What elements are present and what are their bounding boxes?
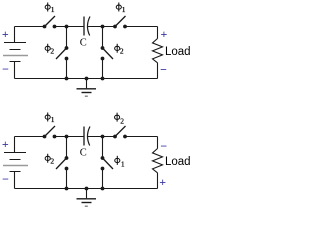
svg-text:+: + [160, 27, 167, 41]
svg-text:Load: Load [165, 46, 191, 58]
svg-text:−: − [160, 139, 167, 153]
svg-text:1: 1 [51, 5, 55, 14]
svg-text:2: 2 [120, 46, 124, 55]
svg-text:1: 1 [122, 5, 126, 14]
svg-text:+: + [2, 137, 9, 151]
svg-text:2: 2 [50, 46, 54, 55]
svg-text:−: − [160, 63, 167, 77]
svg-text:1: 1 [121, 159, 125, 168]
svg-text:+: + [2, 27, 9, 41]
svg-text:Load: Load [165, 156, 191, 168]
svg-text:C: C [80, 148, 87, 159]
svg-text:1: 1 [51, 115, 55, 124]
svg-text:2: 2 [120, 116, 124, 125]
svg-text:+: + [159, 175, 166, 189]
svg-text:C: C [80, 38, 87, 49]
svg-text:−: − [2, 62, 9, 76]
svg-text:−: − [2, 172, 9, 186]
svg-text:2: 2 [50, 156, 54, 165]
